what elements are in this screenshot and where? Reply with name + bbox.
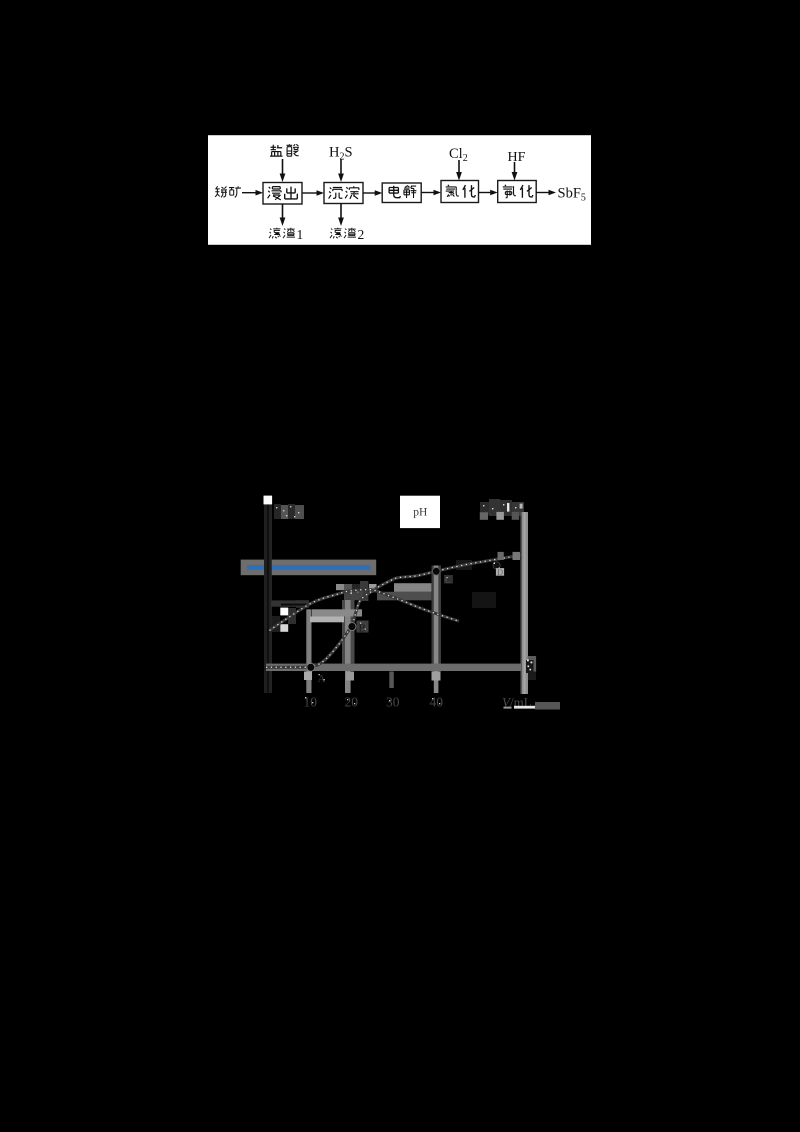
arrow 沉淀 -> 滤渣2 bbox=[338, 204, 344, 227]
svg-text:2: 2 bbox=[358, 227, 365, 242]
x tick label 40 bbox=[430, 695, 444, 710]
svg-text:D: D bbox=[497, 567, 503, 577]
arrow HF -> 氟化 bbox=[512, 162, 518, 181]
faint axis title blobs (right, V(NaOH)/mL-like) bbox=[480, 499, 524, 520]
pH titration graph (dark region) bbox=[236, 488, 566, 718]
arrow 氟化 -> SbF5 bbox=[536, 190, 556, 196]
x tick label 10 bbox=[304, 695, 318, 710]
horizontal gray band x 312-362 (y~612) bbox=[312, 609, 362, 616]
box 沉淀 (precipitate) bbox=[324, 183, 363, 204]
arrow Cl2 -> 氯化 bbox=[456, 160, 462, 181]
label 滤渣2 (residue 2) bbox=[330, 227, 364, 242]
jpeg artifact blocks around curves bbox=[272, 560, 496, 632]
svg-text:pH: pH bbox=[413, 507, 427, 519]
second curve (rises then falls, dotted) bbox=[270, 590, 460, 631]
vertical dashed gridline at x=10 bbox=[304, 609, 312, 693]
arrow 盐酸 -> 浸出 bbox=[280, 159, 286, 182]
svg-text:1: 1 bbox=[297, 227, 304, 242]
point A bbox=[307, 663, 326, 685]
point B bbox=[348, 621, 369, 635]
x axis label V/mL bbox=[502, 695, 560, 710]
vertical dashed gridline at x=40 bbox=[432, 566, 442, 694]
box 浸出 (leach) bbox=[263, 183, 302, 205]
white cap at top of left axis bbox=[264, 496, 273, 505]
svg-text:20: 20 bbox=[345, 695, 359, 710]
pH label box (white) bbox=[400, 496, 440, 528]
left vertical axis (dark) bbox=[264, 496, 272, 693]
point C bbox=[433, 568, 454, 586]
arrow 氯化 -> 氟化 bbox=[479, 190, 498, 196]
box 氯化 (chlorination) bbox=[441, 181, 479, 203]
box 氟化 (fluorination) bbox=[498, 181, 537, 203]
label HF bbox=[508, 150, 526, 165]
short tick at x=30 bbox=[389, 672, 394, 689]
x tick label 30 bbox=[386, 695, 400, 710]
arrow 浸出 -> 滤渣1 bbox=[280, 204, 286, 226]
arrow 锑矿 -> 浸出 bbox=[242, 190, 263, 196]
label 锑矿 (antimony ore) bbox=[215, 186, 241, 197]
right vertical axis (light gray) bbox=[521, 512, 528, 694]
horizontal gray band right of crossing (y~587) bbox=[377, 583, 431, 600]
svg-text:30: 30 bbox=[386, 695, 400, 710]
blue reference line bbox=[247, 565, 370, 570]
label Cl2 bbox=[449, 146, 468, 164]
horizontal dashed segment near left axis (y~604) bbox=[271, 601, 309, 607]
lighter horizontal band x 310-344 (y~619) bbox=[310, 617, 344, 623]
svg-text:10: 10 bbox=[304, 695, 318, 710]
white panel background bbox=[208, 135, 591, 245]
point D bbox=[493, 552, 520, 577]
label H2S bbox=[329, 145, 353, 163]
svg-text:40: 40 bbox=[430, 695, 444, 710]
faint axis title blobs (left) bbox=[274, 504, 304, 519]
arrow H2S -> 沉淀 bbox=[338, 159, 344, 182]
white square artifact near curve (x~284,y~611) bbox=[280, 608, 288, 616]
vertical dashed gridline at x=20 bbox=[336, 584, 363, 693]
svg-text:C: C bbox=[445, 575, 451, 585]
svg-text:HF: HF bbox=[508, 150, 526, 165]
titration curve (S-shaped, dotted) bbox=[266, 555, 521, 667]
x tick label 20 bbox=[345, 695, 359, 710]
x axis (gray band) bbox=[266, 664, 521, 671]
label 滤渣1 (residue 1) bbox=[269, 227, 303, 242]
arrow 沉淀 -> 电解 bbox=[363, 190, 382, 196]
arrow 电解 -> 氯化 bbox=[421, 190, 441, 196]
gray band behind blue reference line bbox=[241, 560, 377, 576]
label SbF5 bbox=[558, 186, 586, 204]
light gray square artifact (x~284,y~628) bbox=[280, 624, 288, 632]
glyph right of right axis at axis level bbox=[526, 656, 536, 680]
box 电解 (electrolysis) bbox=[382, 183, 421, 203]
arrow 浸出 -> 沉淀 bbox=[303, 190, 325, 196]
flowchart panel (white background) bbox=[208, 135, 591, 245]
label 盐酸 (hydrochloric acid) bbox=[270, 144, 299, 156]
